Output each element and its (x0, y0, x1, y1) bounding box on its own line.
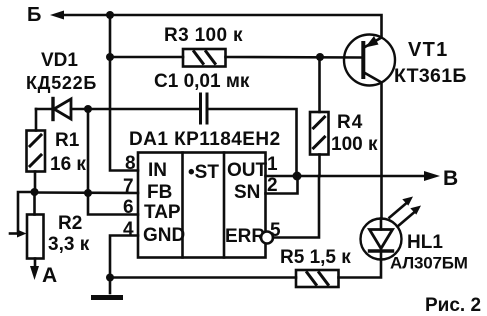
wire R3 to VT1 base (226, 56, 362, 59)
svg-text:А: А (42, 264, 57, 287)
svg-text:DA1 КР1184ЕН2: DA1 КР1184ЕН2 (129, 129, 281, 150)
junction OUT / C1 / SN (293, 172, 302, 181)
svg-text:16 к: 16 к (50, 154, 86, 175)
wire OUT line to node В (266, 175, 435, 178)
svg-text:КД522Б: КД522Б (26, 73, 97, 93)
svg-text:R4: R4 (337, 112, 363, 133)
resistor R2 (27, 192, 44, 259)
wire VT1 collector down (380, 83, 383, 219)
node Б terminal arrow (50, 11, 110, 20)
node В terminal arrow (424, 171, 440, 181)
LED HL1 (361, 219, 402, 260)
wire top rail to VT1 emitter (110, 15, 382, 38)
svg-text:C1 0,01 мк: C1 0,01 мк (154, 71, 250, 92)
wire R4 lower lead (318, 155, 321, 177)
svg-text:TAP: TAP (144, 202, 181, 223)
wire GND pin to ground (110, 236, 138, 278)
potentiometer R2 wiper (10, 192, 35, 238)
junction ground rail (106, 274, 114, 282)
junction diode line / FB branch (84, 105, 92, 113)
wire FB line to IC pin7 (35, 191, 139, 194)
svg-text:8: 8 (125, 153, 136, 174)
wire R3 line left (110, 56, 183, 59)
junction R3 branch (106, 53, 114, 61)
resistor R1 (27, 131, 46, 172)
svg-text:R5 1,5 к: R5 1,5 к (280, 247, 351, 268)
junction top rail / IN rail (106, 11, 114, 19)
capacitor C1 (201, 94, 208, 123)
svg-text:OUT: OUT (227, 160, 268, 181)
svg-text:R1: R1 (55, 130, 80, 151)
resistor R5 (296, 270, 339, 287)
transistor VT1 (344, 35, 395, 86)
wire ERR to R4 node (273, 176, 319, 238)
IC DA1 box (138, 153, 266, 258)
svg-text:•ST: •ST (188, 162, 219, 183)
svg-text:VT1: VT1 (408, 39, 449, 61)
wire TAP link (88, 193, 138, 215)
wire R4 upper lead (318, 57, 321, 112)
wire SN link (266, 176, 298, 194)
svg-text:6: 6 (123, 197, 134, 218)
svg-text:R3 100 к: R3 100 к (164, 25, 243, 46)
svg-text:АЛ307БМ: АЛ307БМ (390, 254, 468, 273)
svg-text:VD1: VD1 (41, 50, 78, 71)
svg-text:SN: SN (234, 182, 260, 203)
svg-text:4: 4 (123, 219, 134, 240)
junction R4 top (316, 53, 324, 61)
LED light arrow 1 (390, 197, 414, 218)
LED light arrow 2 (398, 206, 422, 227)
resistor R3 (183, 49, 226, 67)
node A terminal arrow (30, 259, 39, 281)
svg-text:КТ361Б: КТ361Б (394, 65, 467, 87)
svg-text:В: В (443, 167, 458, 190)
svg-text:IN: IN (148, 160, 167, 181)
wire R1 bottom lead (34, 172, 37, 193)
junction R1/R2/FB (31, 188, 39, 196)
svg-text:7: 7 (123, 176, 134, 197)
svg-text:3,3 к: 3,3 к (48, 234, 90, 255)
svg-text:Рис. 2: Рис. 2 (425, 295, 481, 316)
resistor R4 (310, 112, 329, 155)
svg-text:Б: Б (27, 4, 41, 26)
pin 5 ERR open circle (261, 232, 273, 244)
svg-text:1: 1 (267, 154, 278, 175)
svg-text:100 к: 100 к (331, 134, 378, 155)
wire LED cathode to R5 (339, 260, 382, 278)
svg-text:FB: FB (147, 182, 172, 203)
ground (94, 278, 121, 298)
wire IN rail vertical x=110 (110, 15, 138, 171)
svg-text:HL1: HL1 (407, 232, 443, 253)
wire FB branch vertical (87, 109, 90, 193)
svg-text:ERR: ERR (225, 226, 265, 247)
wire diode/cap line (36, 108, 52, 111)
svg-text:R2: R2 (58, 213, 82, 234)
junction FB line (84, 189, 92, 197)
diode VD1 (53, 99, 199, 120)
svg-text:GND: GND (143, 225, 185, 246)
wire cap right to OUT line (207, 109, 297, 176)
wire R1 top lead (35, 109, 38, 131)
wire ground rail to R5 (110, 276, 296, 279)
